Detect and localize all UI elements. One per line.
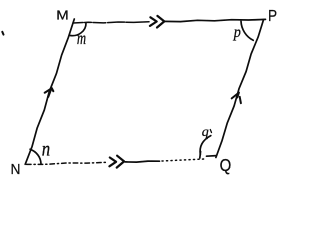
side NQ solid segment after double-arrow	[125, 161, 160, 162]
side MP segment M to double-arrow	[73, 22, 149, 23]
side MP segment double-arrow to P	[164, 19, 266, 21]
angle arc m at vertex M	[69, 23, 86, 36]
double-arrow mark 2 on side NQ	[117, 156, 124, 168]
double-arrow mark 1 on side NQ	[109, 158, 116, 167]
svg-text:n: n	[42, 138, 50, 161]
svg-text:p: p	[233, 24, 242, 41]
double-arrow mark 2 on side MP	[157, 16, 164, 28]
side PQ (right side of parallelogram)	[216, 20, 264, 158]
arrow mark on side PQ	[232, 93, 241, 104]
angle arc p at vertex P	[241, 21, 253, 40]
svg-text:M: M	[56, 7, 68, 22]
side NQ short solid segment at Q	[207, 155, 217, 158]
svg-text:q: q	[202, 125, 209, 140]
svg-text:N: N	[11, 162, 21, 179]
svg-text:Q: Q	[220, 156, 232, 176]
angle arc q at vertex Q	[200, 136, 211, 155]
arrow mark on side MN	[45, 88, 54, 97]
svg-text:m: m	[77, 29, 86, 48]
stray mark at left edge	[2, 32, 3, 35]
tick at lower end of angle arc q	[199, 152, 202, 159]
svg-text:P: P	[268, 8, 277, 25]
angle arc n at vertex N	[30, 149, 41, 163]
side NQ dotted segment	[162, 159, 204, 161]
side NQ dash-dot segment N to double-arrow	[27, 162, 108, 164]
side MN (left side of parallelogram)	[25, 19, 74, 164]
double-arrow mark 1 on side MP	[150, 17, 157, 26]
tick mark after angle label q	[210, 130, 211, 133]
